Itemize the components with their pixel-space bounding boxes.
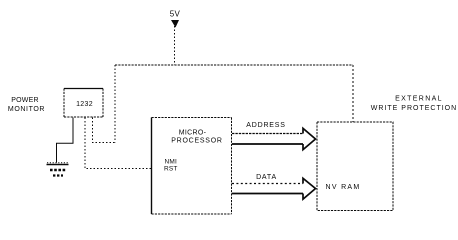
ground bbox=[47, 163, 69, 176]
wire top 5V rail bbox=[115, 64, 353, 66]
svg-text:RST: RST bbox=[164, 166, 178, 173]
wire rail left drop bbox=[114, 65, 116, 143]
svg-text:5V: 5V bbox=[170, 10, 181, 19]
svg-text:MICRO-: MICRO- bbox=[179, 130, 207, 137]
power monitor U1 1232 box bbox=[64, 89, 103, 118]
DATA bus arrow bbox=[232, 178, 316, 199]
svg-text:ADDRESS: ADDRESS bbox=[246, 122, 285, 129]
5V arrow terminal bbox=[171, 20, 179, 28]
wire 1232 GND pin bbox=[57, 118, 74, 163]
wire rail right drop to NV RAM bbox=[352, 65, 354, 122]
NV RAM box bbox=[317, 122, 393, 211]
svg-text:WRITE PROTECTION: WRITE PROTECTION bbox=[371, 105, 457, 112]
svg-text:1232: 1232 bbox=[76, 101, 93, 108]
svg-text:DATA: DATA bbox=[256, 174, 277, 181]
svg-text:MONITOR: MONITOR bbox=[8, 106, 45, 113]
svg-text:PROCESSOR: PROCESSOR bbox=[171, 138, 222, 145]
wire 1232 RST to microprocessor bbox=[85, 118, 151, 169]
microprocessor box bbox=[152, 118, 232, 215]
svg-text:POWER: POWER bbox=[11, 97, 38, 104]
svg-text:EXTERNAL: EXTERNAL bbox=[395, 96, 443, 103]
wire 1232 Vcc riser bbox=[93, 118, 116, 143]
ADDRESS bus arrow bbox=[232, 128, 316, 149]
svg-text:NMI: NMI bbox=[165, 159, 178, 166]
wire 5V vertical drop bbox=[174, 26, 176, 65]
svg-text:NV RAM: NV RAM bbox=[326, 184, 361, 191]
